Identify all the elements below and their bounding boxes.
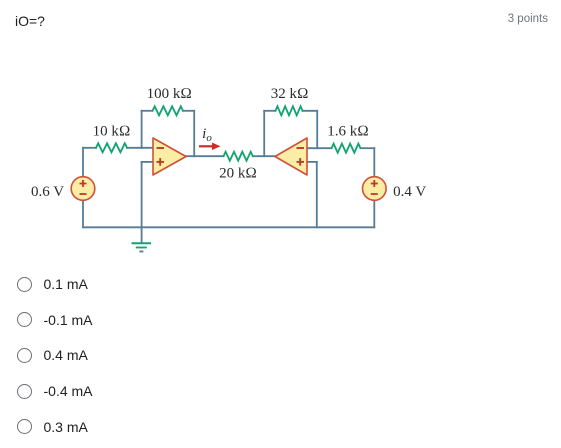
option 4: -0.4 mA — [17, 383, 93, 399]
wire: left input line from source top corner to 10k — [83, 147, 96, 149]
wire: feedback right leg down to output line — [193, 111, 195, 156]
wire: feedback top left segment to 100k — [142, 110, 153, 112]
svg-text:20 kΩ: 20 kΩ — [219, 165, 257, 181]
wire: U2 feedback top left segment to 32k — [264, 110, 275, 112]
wire: left rail from 0.6V source bottom to bottom rail — [82, 200, 84, 227]
resistor R4 32 kOhm feedback U2 — [276, 106, 303, 115]
wire: U2 feedback top right segment from 32k — [303, 110, 318, 112]
resistor R3 20 kOhm — [224, 152, 253, 161]
wire: U1 output line to 20k — [186, 155, 224, 157]
wire: 1.6k to right corner — [361, 147, 375, 149]
svg-text:0.6 V: 0.6 V — [31, 184, 64, 200]
wire: 20k to op-amp U2 tip — [253, 155, 275, 157]
op-amp U2 — [275, 138, 307, 175]
svg-text:100 kΩ: 100 kΩ — [147, 86, 192, 102]
svg-text:32 kΩ: 32 kΩ — [271, 86, 309, 102]
option 3: 0.4 mA — [17, 347, 88, 363]
svg-text:0.4 V: 0.4 V — [393, 184, 426, 200]
resistor R1 10 kOhm — [96, 143, 127, 152]
resistor R2 100 kOhm feedback U1 — [153, 106, 184, 115]
wire: bottom rail — [83, 226, 374, 228]
wire: vertical feedback left leg at node A — [141, 111, 143, 148]
option 2: -0.1 mA — [17, 312, 93, 328]
points label — [508, 13, 548, 25]
wire: U1 plus input vertical down to bottom rail and ground stem — [141, 162, 143, 243]
wire: right rail from 0.4V source bottom to bottom rail — [373, 200, 375, 227]
wire: U2 plus vertical down to bottom rail — [316, 162, 318, 227]
wire: U2 feedback left leg up — [263, 111, 265, 156]
wire: right rail down to 0.4V source top — [373, 148, 375, 177]
question text iO=? — [15, 13, 45, 29]
option 5: 0.3 mA — [17, 419, 88, 435]
wire: U2 plus input stub — [307, 161, 317, 163]
resistor R5 1.6 kOhm — [332, 144, 361, 153]
wire: feedback top right segment from 100k — [183, 110, 194, 112]
op-amp U1 — [153, 138, 186, 175]
ground — [132, 243, 152, 251]
wire: left rail from input line down to 0.6V source top — [82, 148, 84, 177]
svg-text:10 kΩ: 10 kΩ — [93, 123, 131, 139]
svg-text:1.6 kΩ: 1.6 kΩ — [327, 123, 369, 139]
option 1: 0.1 mA — [17, 276, 88, 292]
voltage source V1 0.6 V — [71, 177, 95, 201]
wire: U1 plus input stub — [142, 161, 153, 163]
current arrow io — [199, 143, 221, 150]
wire: U2 minus input line to 1.6k — [307, 147, 332, 149]
svg-text:io: io — [202, 126, 212, 144]
wire: 10k to op-amp U1 minus input, with node A junction — [127, 147, 153, 149]
voltage source V2 0.4 V — [363, 177, 387, 201]
wire: U2 feedback right leg down to minus line — [316, 111, 318, 148]
